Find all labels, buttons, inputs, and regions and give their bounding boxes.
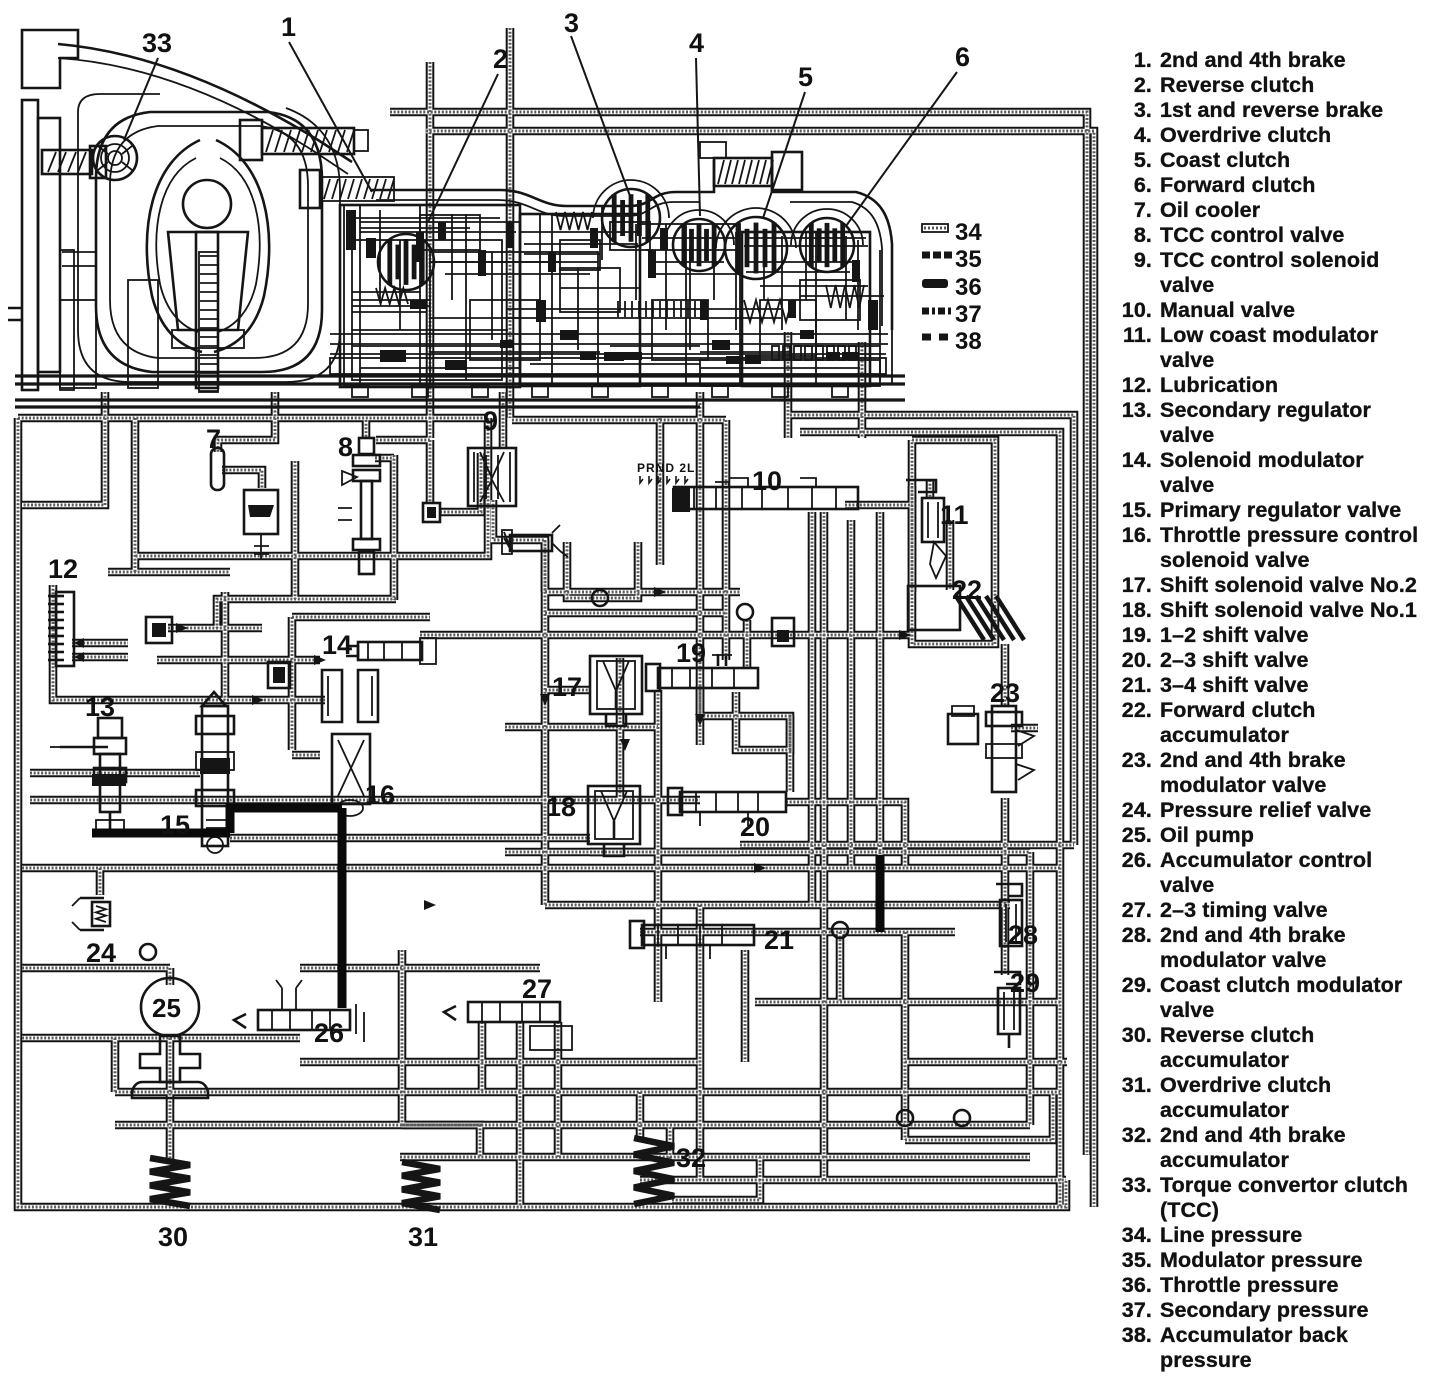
wire left inner v: [134, 418, 136, 572]
forward clutch accumulator 22: [908, 586, 1024, 640]
coast clutch modulator valve 29: [994, 972, 1020, 1048]
flow arrow 5: [540, 694, 550, 706]
junction block 12a: [146, 617, 172, 643]
wire run y968 mid: [300, 967, 540, 969]
wire 7 drop: [218, 392, 275, 452]
left lower case details: [60, 252, 158, 388]
wire v670: [669, 1127, 671, 1162]
legend symbol 37 secondary pressure: [922, 308, 951, 315]
wire v862: [861, 342, 863, 438]
label 7: [206, 424, 221, 454]
svg-text:PRND 2L: PRND 2L: [637, 461, 695, 475]
wire run y800: [30, 799, 700, 801]
wire left frame: [18, 418, 1066, 1207]
label 23: [990, 678, 1020, 708]
wire v851: [850, 520, 852, 868]
svg-text:36: 36: [955, 274, 982, 301]
wire 12 top: [108, 571, 230, 573]
wire 25 col: [169, 968, 171, 985]
gear teeth strip: [199, 252, 218, 392]
case bottom lugs: [352, 385, 848, 397]
label 24: [86, 938, 116, 968]
wire sub-box A: [567, 542, 638, 598]
wire box29 bottom: [905, 1092, 1053, 1140]
cross-section spring b: [744, 300, 792, 322]
TCC control valve 8: [338, 438, 380, 574]
svg-text:37: 37: [955, 301, 982, 328]
svg-text:2: 2: [493, 44, 508, 74]
svg-text:10: 10: [752, 466, 782, 496]
junction node 3: [737, 604, 753, 620]
throttle pressure line v880: [876, 855, 885, 932]
svg-text:33: 33: [142, 28, 172, 58]
wire v812: [811, 512, 813, 905]
junction block 8a: [423, 503, 440, 522]
link line 13: [50, 746, 60, 748]
wire run y868: [22, 867, 1060, 869]
label 12: [48, 554, 78, 584]
wire run y628: [168, 627, 262, 629]
torque converter blades: [147, 140, 269, 352]
svg-text:29: 29: [1010, 968, 1040, 998]
wire 8 box link: [375, 457, 394, 459]
wire 32 out: [672, 1157, 760, 1200]
svg-text:12: 12: [48, 554, 78, 584]
label 5 leader: [763, 62, 813, 218]
cross-section extra vertical lines: [380, 206, 858, 350]
svg-text:8: 8: [338, 432, 353, 462]
wire v620: [619, 658, 621, 800]
legend number 38: [955, 328, 982, 355]
label 18: [546, 792, 576, 822]
wire 32 feed: [639, 1092, 641, 1140]
2nd and 4th brake modulator valve 23: [948, 706, 1034, 792]
clutch pack circle E forward clutch: [800, 218, 854, 272]
solenoid modulator valve 14: [346, 638, 436, 664]
oil pump 25: [132, 978, 208, 1098]
flow arrow 2: [314, 655, 326, 665]
label 26: [314, 1018, 344, 1048]
secondary regulator valve 13: [60, 718, 126, 834]
svg-text:38: 38: [955, 328, 982, 355]
wire 8 top elbow: [376, 439, 430, 441]
legend number 34: [955, 219, 982, 246]
wire sub-box B: [736, 692, 790, 750]
legend symbol 35 modulator pressure: [922, 252, 952, 259]
wire top-left run: [18, 417, 488, 419]
wire 8 bottom left: [217, 599, 396, 628]
wire run y1125: [115, 1124, 1030, 1126]
cross-section dark details: [346, 210, 878, 370]
wire run y932: [640, 931, 955, 933]
junction node 5: [954, 1110, 970, 1126]
label 4 leader: [689, 28, 704, 216]
bolt 2 hatched: [300, 170, 394, 208]
pressure relief valve 24: [72, 898, 110, 930]
wire 16 stub: [292, 754, 320, 756]
wire cooler drop: [294, 461, 296, 599]
clutch housing shells: [593, 180, 863, 248]
label 14: [322, 630, 352, 660]
svg-text:3: 3: [564, 8, 579, 38]
wire 22 box: [912, 440, 995, 644]
wire v1005: [1004, 644, 1006, 706]
flow arrow 6: [754, 863, 766, 873]
low coast modulator valve 11: [906, 480, 946, 578]
wire 8 feed: [365, 420, 367, 437]
turbine hub: [168, 180, 248, 388]
wire 12 box: [53, 585, 153, 700]
flow arrow 7: [424, 900, 436, 910]
label 17: [552, 672, 582, 702]
main shaft lines: [330, 301, 888, 374]
wire v788: [787, 332, 789, 438]
1-2 shift valve 19: [646, 654, 758, 691]
wire y420 mid: [512, 419, 726, 421]
wire v402: [401, 950, 403, 1125]
clutch pack circle D coast clutch: [725, 217, 787, 279]
wire v292: [291, 617, 293, 750]
wire run y852: [505, 851, 740, 853]
wire run y727: [505, 726, 658, 728]
cross-section spring a: [556, 212, 592, 230]
wire right inner vertical A: [800, 432, 1060, 1207]
label 27: [522, 974, 552, 1004]
check valve 10b: [502, 525, 568, 557]
svg-text:21: 21: [764, 925, 794, 955]
oil cooler 7: [211, 448, 278, 560]
wire v905: [904, 932, 906, 1140]
2nd and 4th brake modulator valve 28: [996, 884, 1022, 946]
wire 7 tee: [222, 470, 262, 488]
wire v545: [544, 540, 546, 905]
label 10: [752, 466, 782, 496]
shift solenoid valve No.1 18: [588, 786, 640, 856]
svg-text:32: 32: [676, 1143, 706, 1173]
svg-text:23: 23: [990, 678, 1020, 708]
cross-section extra horizontal lines: [350, 218, 884, 368]
wire block to 9: [440, 453, 481, 512]
cross-section spring d: [376, 288, 408, 304]
svg-text:31: 31: [408, 1222, 438, 1252]
wire 17 stub: [545, 689, 590, 691]
wire v558: [557, 1022, 559, 1157]
label 30: [158, 1222, 188, 1252]
svg-text:19: 19: [676, 638, 706, 668]
wire run y1157: [400, 1156, 1030, 1158]
wire 20 right: [786, 802, 905, 868]
wire v225: [224, 592, 226, 700]
svg-text:17: 17: [552, 672, 582, 702]
2-3 timing valve 27: [444, 1002, 572, 1050]
label 6 leader: [846, 42, 970, 226]
wire v880: [879, 512, 881, 855]
label 13: [85, 692, 115, 722]
wire y1038-1092 link: [114, 1038, 116, 1092]
bolt left hatched: [42, 146, 106, 178]
reverse clutch accumulator spring 30: [150, 1158, 190, 1206]
wire run y1002: [755, 1001, 1060, 1003]
flow arrow 4: [695, 714, 705, 726]
label 31: [408, 1222, 438, 1252]
svg-text:28: 28: [1008, 920, 1038, 950]
legend number 35: [955, 246, 982, 273]
svg-text:18: 18: [546, 792, 576, 822]
TCC control solenoid valve 9: [468, 448, 516, 506]
cross-section spring c: [826, 285, 864, 308]
block 16a: [268, 662, 290, 688]
wire run y1092: [115, 1091, 1060, 1093]
svg-text:24: 24: [86, 938, 116, 968]
wire run y702: [153, 699, 325, 701]
flow arrow 10: [654, 587, 666, 597]
primary regulator valve 15: [196, 692, 234, 853]
manual valve 10: [672, 478, 858, 512]
wire 23 to v1030: [1011, 727, 1038, 729]
wire 11 col: [929, 480, 931, 498]
case top contour: [370, 160, 892, 330]
svg-text:11: 11: [940, 500, 969, 530]
wire inner top frame: [426, 131, 1094, 1207]
label 28: [1008, 920, 1038, 950]
wire A lower: [429, 440, 431, 503]
svg-text:16: 16: [365, 780, 395, 810]
wire run y773: [30, 772, 200, 774]
overdrive clutch accumulator spring 31: [402, 1162, 440, 1210]
wire long vertical A: [429, 62, 431, 438]
clutch drum rects: [340, 205, 870, 387]
cross-section mid lines: [352, 205, 868, 384]
wire run y905: [545, 904, 1010, 906]
wire run y617: [292, 616, 430, 618]
sensor rack teeth: [772, 346, 856, 360]
junction node 2: [832, 922, 848, 938]
wire run y635: [420, 634, 912, 636]
cross-section extra dark details: [366, 222, 860, 364]
label 29: [1010, 968, 1040, 998]
wire v700a: [699, 392, 701, 745]
svg-text:15: 15: [160, 810, 190, 840]
svg-text:13: 13: [85, 692, 115, 722]
wire 30 col: [169, 1038, 171, 1160]
label 3 leader: [564, 8, 630, 196]
label 22: [952, 575, 982, 605]
wire 12 inner: [72, 643, 128, 657]
svg-text:26: 26: [314, 1018, 344, 1048]
label 8: [338, 432, 353, 462]
wire run y852 right: [590, 851, 1030, 853]
wire 24 col: [99, 868, 101, 895]
svg-text:27: 27: [522, 974, 552, 1004]
case bottom lines: [15, 376, 905, 407]
XSECTION: [8, 30, 905, 407]
wire v912b: [911, 486, 913, 592]
junction node 6: [592, 590, 608, 606]
flow arrow 3: [620, 739, 630, 751]
wire run y838 left: [230, 837, 590, 839]
wire v482: [481, 1022, 483, 1092]
label 20: [740, 812, 770, 842]
label 33 leader: [124, 28, 172, 140]
case right details: [700, 244, 892, 386]
wire v1030: [1029, 852, 1031, 1125]
flow arrow 1: [176, 623, 188, 633]
PIPES_DEF: [18, 28, 1094, 1207]
wire right inner vertical B: [790, 415, 1074, 845]
svg-text:22: 22: [952, 575, 982, 605]
wire run y592 mid: [545, 591, 740, 593]
wire run y613: [545, 612, 726, 614]
wire 9 drop: [502, 392, 504, 448]
throttle pressure line to 26: [338, 808, 347, 1008]
wire box7 right edge: [135, 418, 488, 556]
label 2 leader: [428, 44, 508, 222]
clutch pack circle B 1st reverse brake: [602, 189, 660, 247]
torque convertor clutch TCC ring 33: [93, 136, 137, 180]
wire 8 box right: [393, 455, 395, 600]
wire run y1180: [640, 1179, 1066, 1181]
wire run y845 right: [740, 844, 1074, 846]
torque converter shell: [96, 112, 322, 372]
clutch pack circle C overdrive clutch: [673, 219, 725, 271]
label 21: [764, 925, 794, 955]
legend symbol 34 line pressure: [922, 224, 948, 232]
2nd and 4th brake accumulator spring 32: [634, 1138, 674, 1204]
throttle pressure line 13-15: [92, 829, 230, 838]
shift solenoid valve No.2 17: [590, 656, 642, 726]
svg-text:20: 20: [740, 812, 770, 842]
lubrication 12: [48, 592, 84, 666]
PRND2L text: [637, 461, 695, 483]
svg-text:7: 7: [206, 424, 221, 454]
wire 19-20 link: [700, 686, 790, 792]
label 1 leader: [281, 12, 372, 192]
label 16: [365, 780, 395, 810]
junction block 10a: [772, 618, 794, 646]
2-3 shift valve 20: [668, 788, 786, 826]
clutch pack circle A: [378, 234, 434, 290]
wire long vertical B: [509, 28, 511, 418]
flow arrow 8: [899, 630, 911, 640]
wire run y1038: [22, 1037, 300, 1039]
throttle pressure line 15-16: [230, 808, 342, 833]
wire v950: [949, 520, 951, 590]
wire 10 to 11: [845, 504, 912, 506]
svg-text:4: 4: [689, 28, 704, 58]
case wall around converter: [78, 94, 340, 382]
svg-text:35: 35: [955, 246, 982, 273]
svg-text:9: 9: [483, 406, 498, 436]
wire v747: [746, 620, 748, 668]
wire v1005b: [1004, 798, 1006, 975]
label 11: [940, 500, 969, 530]
wire v700b: [699, 905, 701, 1180]
label 15: [160, 810, 190, 840]
wire v658 long: [657, 690, 659, 1002]
svg-text:5: 5: [798, 62, 813, 92]
bolt 1 hatched: [240, 120, 368, 160]
legend symbol 38 accumulator back pressure: [922, 334, 948, 341]
bell housing outline: [58, 44, 352, 174]
junction node 4: [140, 944, 156, 960]
wire run y968 left: [22, 967, 170, 969]
bolt 3 top hatched: [700, 142, 802, 190]
svg-text:6: 6: [955, 42, 970, 72]
wire 31 box: [402, 1125, 480, 1157]
label 19: [676, 638, 706, 668]
throttle pressure control solenoid valve 16: [322, 670, 378, 816]
legend number 36: [955, 274, 982, 301]
wire run y1062 right: [905, 1061, 1067, 1063]
3-4 shift valve 21: [630, 921, 754, 959]
svg-text:34: 34: [955, 219, 982, 246]
wire left feed v: [22, 392, 105, 505]
label 9: [483, 406, 498, 436]
wire v840: [839, 932, 841, 1002]
legend symbol 36 throttle pressure: [922, 279, 948, 288]
svg-text:14: 14: [322, 630, 352, 660]
wire v726: [725, 420, 727, 660]
wire top frame: [390, 112, 1087, 1155]
svg-text:1: 1: [281, 12, 296, 42]
legend number 37: [955, 301, 982, 328]
wire run y658: [157, 659, 320, 661]
label 32: [676, 1143, 706, 1173]
wire v824: [823, 512, 825, 1180]
svg-text:30: 30: [158, 1222, 188, 1252]
svg-text:25: 25: [152, 993, 181, 1023]
wire run y1062: [300, 1061, 700, 1063]
wire v520: [519, 1022, 521, 1207]
accumulator control valve 26: [234, 980, 364, 1042]
flow arrow 9: [252, 695, 264, 705]
junction node 1: [897, 1110, 913, 1126]
transmission case left flange: [8, 30, 78, 390]
wire v660: [659, 418, 661, 565]
wire 9 down right: [493, 500, 545, 592]
wire v745b: [744, 950, 746, 1062]
